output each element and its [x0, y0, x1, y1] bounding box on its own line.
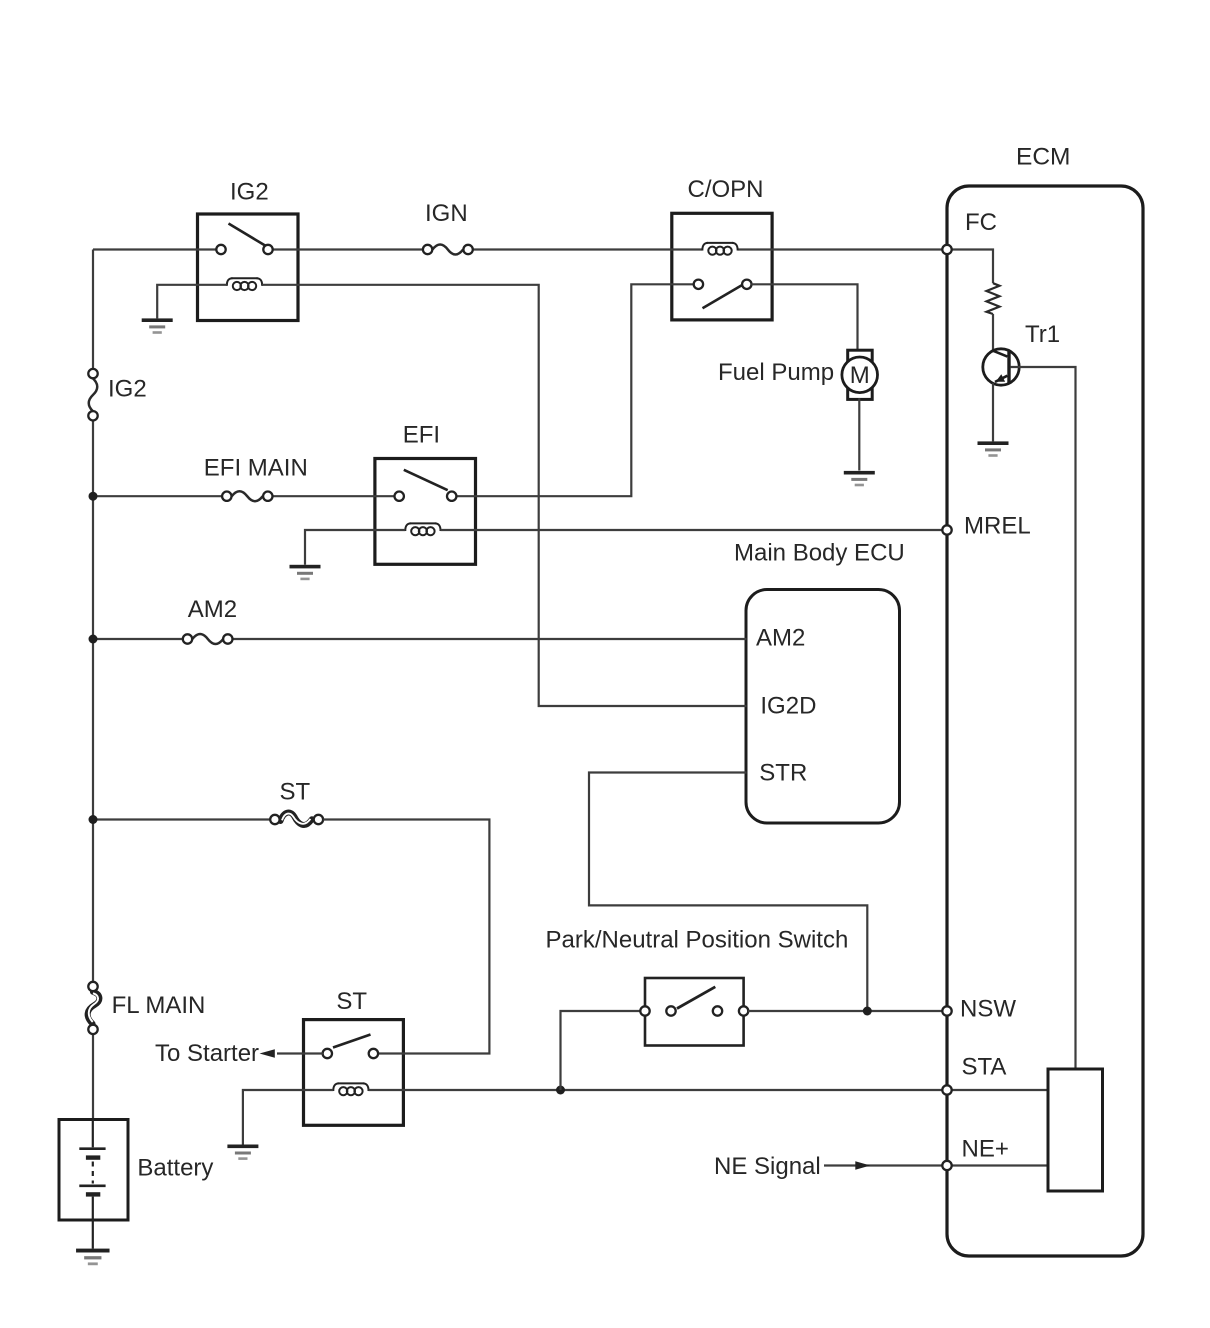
contact C/OPN relay right — [742, 280, 751, 289]
svg-text:NE+: NE+ — [962, 1136, 1009, 1163]
pin FC — [942, 245, 951, 254]
pin STA — [942, 1085, 951, 1094]
svg-text:Main Body ECU: Main Body ECU — [734, 540, 905, 567]
battery cells — [79, 1120, 105, 1249]
wire AM2 row — [93, 638, 183, 640]
wire NE+ pin to logic box — [947, 1164, 1048, 1166]
fusible link IG2 (bus) — [89, 379, 98, 412]
fusible link ST — [281, 813, 312, 825]
wire ST coil to STA pin — [369, 1089, 943, 1091]
svg-text:To Starter: To Starter — [155, 1040, 259, 1067]
wire C/OPN coil to FC pin — [738, 248, 943, 250]
svg-text:EFI MAIN: EFI MAIN — [204, 454, 308, 481]
switch park/neutral blade — [677, 987, 715, 1009]
contact IG2 relay left — [216, 245, 225, 254]
contact park/neutral terminal right — [739, 1006, 748, 1015]
svg-text:STR: STR — [759, 760, 807, 787]
svg-text:FL MAIN: FL MAIN — [112, 992, 206, 1019]
wire STR pin to NSW junction — [589, 773, 867, 1012]
switch IG2 relay blade — [229, 224, 265, 246]
arrow to starter — [260, 1049, 275, 1057]
wire IG2 coil to IG2D pin — [262, 285, 746, 706]
svg-text:EFI: EFI — [403, 422, 440, 449]
battery box — [59, 1120, 128, 1221]
wire NE signal to NE+ pin — [824, 1164, 943, 1166]
fuel pump motor — [842, 350, 878, 399]
node bus/ST junction — [89, 815, 98, 824]
relay ST box — [304, 1020, 404, 1126]
contact park/neutral terminal left — [640, 1006, 649, 1015]
node STA row junction — [556, 1086, 565, 1095]
contact IG2 relay right — [263, 245, 272, 254]
svg-text:ECM: ECM — [1016, 144, 1070, 171]
svg-text:IG2: IG2 — [230, 179, 269, 206]
wire park/neutral switch to NSW pin — [748, 1010, 943, 1012]
transistor Tr1 — [983, 349, 1019, 385]
svg-text:Tr1: Tr1 — [1025, 321, 1060, 348]
node NSW junction — [863, 1007, 872, 1016]
wire park/neutral switch to STA row — [561, 1011, 641, 1090]
resistor (ECM internal) — [987, 283, 1000, 314]
svg-text:Battery: Battery — [137, 1155, 213, 1182]
contact park/neutral inner left — [666, 1006, 675, 1015]
wire ST fuse to ST relay switch — [323, 820, 489, 1054]
fuse AM2 — [192, 634, 223, 644]
node bus/EFI MAIN junction — [89, 492, 98, 501]
relay EFI box — [375, 459, 476, 565]
contact ST relay left — [323, 1049, 332, 1058]
fusible link FL MAIN (bus) — [88, 992, 100, 1024]
wire battery positive bus (upper) — [92, 250, 94, 374]
switch ST relay blade — [333, 1035, 371, 1048]
svg-text:NSW: NSW — [960, 996, 1016, 1023]
wire STA pin to logic box — [947, 1089, 1048, 1091]
wire C/OPN switch to fuel pump — [751, 284, 857, 351]
wire battery positive bus (middle) — [92, 416, 94, 987]
relay IG2 box — [198, 214, 299, 321]
contact EFI relay right — [447, 492, 456, 501]
wire resistor to transistor — [992, 314, 994, 351]
node bus/AM2 junction — [89, 635, 98, 644]
wire C/OPN switch to EFI relay switch — [456, 284, 694, 496]
ground transistor emitter — [978, 441, 1009, 456]
wire EFI coil to ground — [305, 530, 405, 565]
wire fuel pump to ground — [858, 398, 860, 470]
wire transistor emitter to ground — [992, 383, 994, 441]
ECM block outline — [947, 186, 1143, 1256]
relay C/OPN box — [672, 213, 772, 320]
svg-text:NE Signal: NE Signal — [714, 1153, 821, 1180]
park/neutral position switch box — [645, 978, 744, 1046]
coil EFI relay — [405, 523, 440, 535]
wire ST coil to ground — [243, 1090, 333, 1145]
ground battery — [76, 1249, 109, 1266]
fuse IGN — [433, 245, 464, 255]
svg-text:M: M — [850, 362, 870, 389]
wire top rail bus to IG2 relay — [93, 248, 217, 250]
svg-text:FC: FC — [965, 209, 997, 236]
svg-text:IGN: IGN — [425, 200, 468, 227]
wire ST switch to starter — [277, 1052, 323, 1054]
fuse EFI MAIN — [232, 491, 263, 501]
ground IG2 relay coil — [142, 318, 173, 333]
wire battery positive bus (lower) — [92, 1029, 94, 1119]
pin NSW — [942, 1006, 951, 1015]
svg-text:ST: ST — [280, 779, 311, 806]
svg-text:IG2: IG2 — [108, 376, 147, 403]
Main Body ECU block outline — [746, 590, 900, 824]
contact ST relay right — [369, 1049, 378, 1058]
svg-text:IG2D: IG2D — [760, 693, 816, 720]
svg-text:STA: STA — [962, 1054, 1007, 1081]
wire IGN fuse to C/OPN coil — [473, 248, 703, 250]
contact park/neutral inner right — [713, 1006, 722, 1015]
svg-text:AM2: AM2 — [188, 596, 237, 623]
arrow NE signal — [855, 1161, 870, 1169]
wire IG2 relay to IGN fuse — [272, 248, 423, 250]
ground ST relay coil — [227, 1145, 258, 1160]
pin NE+ — [942, 1161, 951, 1170]
switch C/OPN relay blade — [703, 285, 743, 309]
contact EFI relay left — [395, 492, 404, 501]
coil ST relay — [333, 1083, 368, 1095]
contact C/OPN relay left — [694, 280, 703, 289]
pin MREL — [942, 525, 951, 534]
wire ST fuse row — [93, 818, 270, 820]
svg-text:Fuel Pump: Fuel Pump — [718, 359, 834, 386]
wire EFI coil to MREL pin — [441, 529, 943, 531]
ground EFI relay coil — [290, 565, 321, 580]
svg-text:Park/Neutral Position Switch: Park/Neutral Position Switch — [546, 927, 849, 954]
coil IG2 relay — [227, 278, 262, 290]
wire EFI MAIN row — [93, 495, 222, 497]
wire IG2 coil to ground — [157, 285, 227, 319]
coil C/OPN relay — [702, 243, 737, 255]
svg-text:AM2: AM2 — [756, 625, 805, 652]
wire FC pin to resistor — [947, 250, 993, 284]
ground fuel pump — [844, 471, 875, 486]
svg-text:C/OPN: C/OPN — [688, 176, 764, 203]
svg-text:ST: ST — [336, 988, 367, 1015]
ECM logic box — [1048, 1069, 1103, 1191]
svg-text:MREL: MREL — [964, 513, 1031, 540]
wire transistor base to logic box — [1010, 367, 1075, 1069]
switch EFI relay blade — [404, 470, 448, 490]
